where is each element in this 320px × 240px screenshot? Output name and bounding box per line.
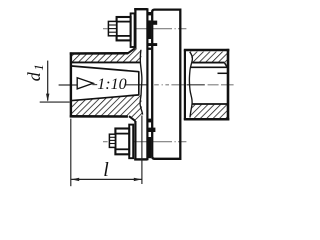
hub2 top hatch section	[190, 52, 228, 67]
hub1 bore top taper line	[70, 66, 139, 72]
dimension d1 arrow	[46, 94, 49, 102]
bottom pin washer	[129, 125, 133, 159]
hub1 top fillet to flange	[127, 49, 134, 54]
dimension l right extension line	[141, 116, 143, 185]
hub2 bore bottom line	[192, 103, 228, 105]
bushing bottom pin: rib above	[148, 119, 151, 123]
hub1 bottom face	[70, 115, 128, 118]
hub2 keyway runout diagonal	[224, 63, 227, 68]
top pin thread lines	[108, 24, 116, 26]
bottom pin nut facet lines	[115, 133, 129, 135]
hub1 left face	[70, 52, 72, 117]
dimension d1 line	[47, 61, 49, 101]
dimension l line	[71, 178, 142, 180]
bottom pin thread stub	[109, 134, 115, 147]
bushing top pin: rib below	[148, 48, 151, 50]
flange2 outline	[152, 10, 180, 159]
bottom pin nut	[115, 129, 129, 155]
hub1 bore bottom taper line	[70, 95, 139, 101]
dimension d1 extension line	[40, 101, 70, 103]
svg-text:1:10: 1:10	[97, 76, 126, 93]
hub1 bottom fillet to flange	[129, 116, 135, 121]
hub2 top face	[184, 49, 230, 52]
top pin thread stub	[108, 21, 116, 35]
hub1 top hatch section	[71, 49, 142, 62]
hub2 bottom face	[184, 118, 230, 121]
dimension l left extension line	[70, 119, 72, 187]
hub1 top face	[70, 52, 128, 55]
centerline main axis	[59, 84, 234, 86]
hub2 bottom hatch section	[190, 105, 228, 119]
hub1 break wavy line	[140, 50, 143, 115]
top pin nut facet lines	[117, 21, 131, 23]
svg-text:l: l	[103, 159, 109, 181]
taper symbol triangle	[77, 78, 93, 89]
flange1 bottom cap	[134, 158, 147, 160]
hub2 keyway line	[192, 62, 224, 64]
dimension l right arrow	[134, 178, 142, 181]
bushing top pin: collar bar upper	[151, 21, 157, 25]
bottom pin thread lines	[109, 136, 115, 138]
flange1 top cap	[134, 8, 147, 10]
dimension l left arrow	[71, 178, 79, 181]
hub1 bottom hatch section	[71, 95, 143, 121]
bushing top pin: collar bar lower	[148, 43, 157, 46]
bushing bottom pin: collar bar upper	[148, 128, 156, 132]
hub1 keyway line	[70, 61, 140, 63]
hub2 inner chamfer line	[218, 72, 228, 74]
bushing top pin: rib in gap	[148, 12, 151, 15]
hub2 right face	[227, 49, 230, 121]
flange1 left face upper segment	[134, 8, 136, 49]
top pin nut	[117, 17, 131, 40]
hub2 left face	[184, 50, 186, 120]
hub2 break wavy line	[189, 52, 192, 118]
centerline bottom pin axis	[103, 141, 186, 143]
centerline top pin axis	[103, 28, 186, 30]
bushing top pin: body block in gap	[148, 20, 151, 39]
flange coupling cross-section drawing	[0, 0, 237, 199]
bushing bottom pin: body block in gap	[148, 137, 151, 158]
hub2 bore top line	[190, 66, 227, 68]
top pin washer	[131, 13, 135, 47]
hub1 bore end edge	[138, 71, 140, 95]
flange1 left face lower segment	[134, 121, 136, 160]
flange1 right face	[146, 8, 148, 160]
